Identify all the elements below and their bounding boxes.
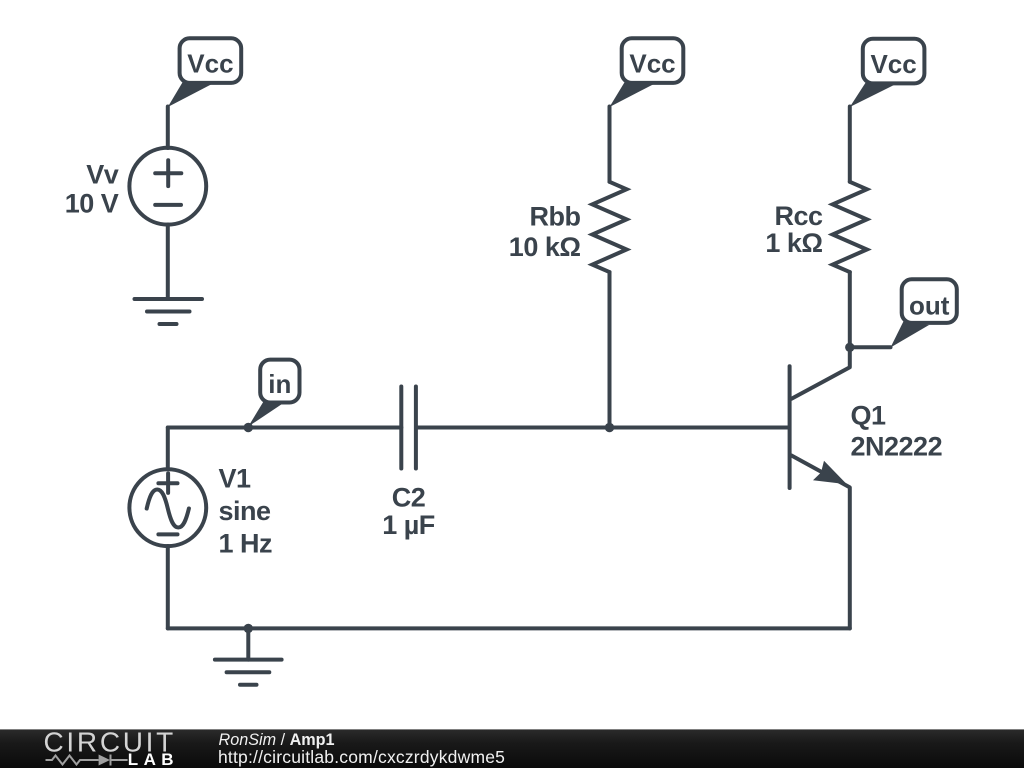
svg-text:1 µF: 1 µF <box>382 510 435 540</box>
svg-text:Vcc: Vcc <box>629 49 675 79</box>
svg-text:1 kΩ: 1 kΩ <box>765 228 822 258</box>
svg-text:LAB: LAB <box>128 750 179 768</box>
svg-text:Vcc: Vcc <box>187 49 233 79</box>
svg-text:out: out <box>909 291 950 321</box>
svg-text:http://circuitlab.com/cxczrdyk: http://circuitlab.com/cxczrdykdwme5 <box>218 747 505 767</box>
svg-text:C2: C2 <box>392 483 426 513</box>
svg-text:Rcc: Rcc <box>774 201 823 231</box>
svg-text:1 Hz: 1 Hz <box>219 529 273 559</box>
svg-text:in: in <box>268 369 291 399</box>
svg-text:2N2222: 2N2222 <box>851 432 943 462</box>
svg-text:V1: V1 <box>219 464 252 494</box>
svg-text:Rbb: Rbb <box>530 202 581 232</box>
svg-text:Q1: Q1 <box>851 400 887 430</box>
svg-text:sine: sine <box>219 496 272 526</box>
svg-text:10 V: 10 V <box>65 189 119 219</box>
svg-text:10 kΩ: 10 kΩ <box>509 232 581 262</box>
svg-text:Vcc: Vcc <box>870 49 916 79</box>
svg-text:Vv: Vv <box>86 159 119 189</box>
